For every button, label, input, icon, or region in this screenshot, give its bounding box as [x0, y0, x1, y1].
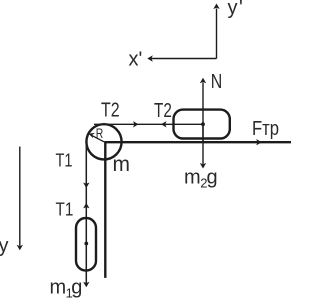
svg-text:g: g — [207, 166, 218, 188]
block m2 center dot — [201, 122, 205, 126]
y axis arrow (left) — [17, 147, 23, 251]
svg-text:R: R — [96, 125, 104, 141]
T1 arrowhead pointing up — [83, 203, 89, 209]
axis x' arrow — [147, 55, 216, 61]
label m2g — [184, 166, 218, 190]
svg-text:Fтр: Fтр — [252, 118, 279, 140]
label m1g — [50, 277, 83, 299]
svg-text:y: y — [0, 235, 9, 257]
rope T2 line (pulley to block) — [94, 123, 203, 125]
hanging mass m1 capsule — [76, 218, 96, 271]
T1 arrowhead pointing down — [83, 183, 89, 189]
svg-text:m: m — [50, 277, 67, 299]
m1 center dot — [84, 242, 88, 246]
table surface line — [105, 142, 291, 278]
friction force Fтр arrowhead — [256, 139, 262, 145]
axis y' arrow — [213, 4, 219, 59]
svg-text:y': y' — [228, 0, 245, 19]
svg-text:N: N — [211, 71, 223, 93]
rope down from pulley to hanging mass — [85, 142, 87, 284]
svg-text:T1: T1 — [56, 198, 74, 219]
svg-text:m: m — [184, 166, 201, 188]
T2 arrowhead pointing right — [133, 121, 139, 127]
svg-text:T2: T2 — [154, 100, 172, 122]
svg-text:x': x' — [129, 49, 143, 71]
pulley radius R arrow — [89, 133, 105, 142]
normal force N arrow — [200, 78, 206, 142]
m1g arrowhead — [83, 282, 89, 288]
svg-text:T2: T2 — [101, 100, 120, 122]
svg-text:g: g — [71, 277, 82, 299]
pulley circle — [86, 124, 121, 159]
svg-text:T1: T1 — [56, 150, 73, 171]
svg-text:m: m — [113, 153, 131, 176]
T2 arrowhead pointing left — [161, 121, 167, 127]
block m2 — [174, 110, 230, 139]
weight m2g arrow — [200, 124, 206, 168]
